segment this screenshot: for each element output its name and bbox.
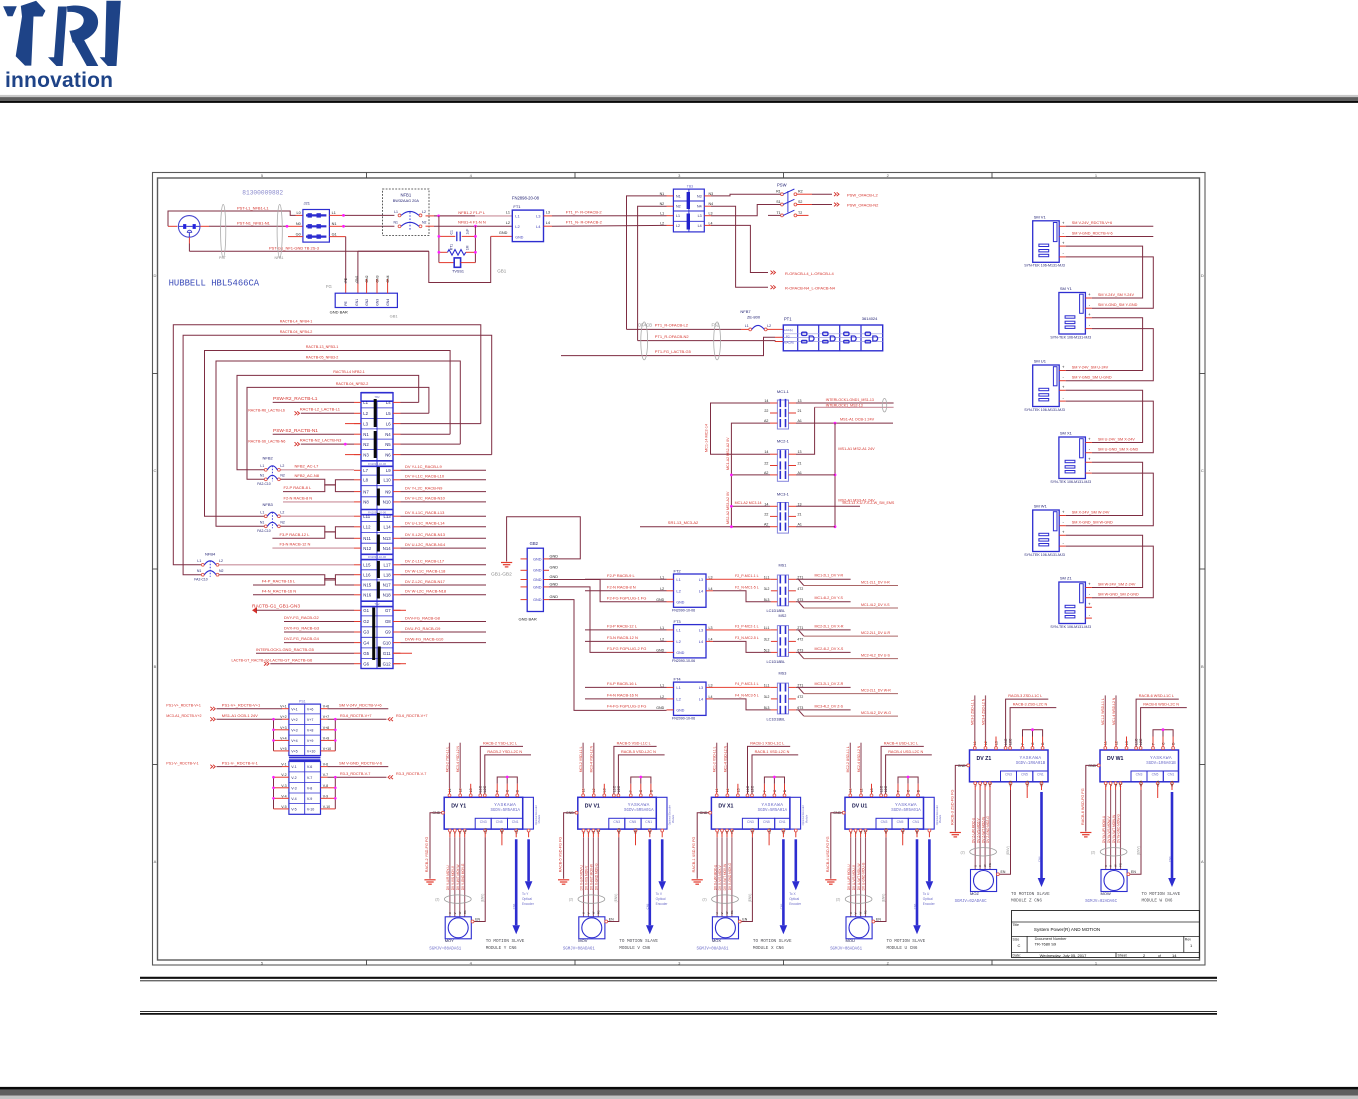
svg-text:MC2-4 USD-L2 N: MC2-4 USD-L2 N xyxy=(857,745,861,772)
net MC3-2L1_DV Z-R xyxy=(796,686,851,688)
wire DV U1 CN8 to EN xyxy=(885,832,887,837)
net SM V-24V_RDCTB-V+6 xyxy=(1066,225,1154,227)
svg-text:L13: L13 xyxy=(384,514,392,519)
DV U1 L3 stub xyxy=(871,784,873,794)
svg-text:MODULE X CN6: MODULE X CN6 xyxy=(753,946,784,951)
svg-text:GND: GND xyxy=(676,601,684,605)
svg-text:TB2: TB2 xyxy=(374,395,380,399)
svg-text:RACB-3 ZSD-FG FG: RACB-3 ZSD-FG FG xyxy=(950,790,954,825)
svg-text:GN4: GN4 xyxy=(386,299,390,306)
svg-text:U: U xyxy=(849,912,853,914)
wire MC2-A2 MC3-A2 0V xyxy=(731,475,770,527)
svg-text:L3: L3 xyxy=(698,214,702,218)
DV X1 GND pin xyxy=(709,811,712,814)
svg-text:SYN-TEK 106-M131-MJ3: SYN-TEK 106-M131-MJ3 xyxy=(1050,625,1091,629)
svg-text:Encoder: Encoder xyxy=(656,902,669,906)
wire F4-N RACB-16 N xyxy=(585,698,667,700)
svg-text:CN6: CN6 xyxy=(1037,856,1041,862)
svg-text:SM Y-24V_SM U-24V: SM Y-24V_SM U-24V xyxy=(1072,365,1109,369)
svg-text:DV Z-L2C_RACB-N17: DV Z-L2C_RACB-N17 xyxy=(405,579,446,584)
svg-text:1L1: 1L1 xyxy=(764,575,770,579)
svg-text:L1: L1 xyxy=(660,626,664,630)
svg-text:L14: L14 xyxy=(384,525,392,530)
DV X1 L3 stub xyxy=(737,784,739,794)
svg-text:V-10: V-10 xyxy=(323,805,330,809)
svg-text:Size: Size xyxy=(1013,937,1020,941)
svg-text:MC1-2L1_DV Y-R: MC1-2L1_DV Y-R xyxy=(815,574,844,578)
net SM V-24V_RDCTB-V+6 xyxy=(327,708,388,710)
svg-text:L10: L10 xyxy=(384,478,392,483)
svg-text:GN4: GN4 xyxy=(386,275,390,282)
svg-text:CN1: CN1 xyxy=(512,820,519,824)
svg-text:PSW-S2_RACTB-N1: PSW-S2_RACTB-N1 xyxy=(273,428,318,434)
wire F3_P-MC2-1 L xyxy=(713,629,771,631)
svg-text:N1: N1 xyxy=(363,432,369,437)
svg-text:L3: L3 xyxy=(536,214,541,219)
svg-text:FG: FG xyxy=(730,910,734,914)
svg-text:SGDV=5R5A01A: SGDV=5R5A01A xyxy=(624,809,654,813)
wire loop RACTB-05_NFB3-2 xyxy=(401,443,461,445)
servo drive DV X1 YASKAWA SGDV=5R5A01A xyxy=(711,797,790,829)
svg-text:MOZ: MOZ xyxy=(970,891,979,896)
wire MC2-13 riser xyxy=(796,407,815,454)
wire MC3-2 YSD-L1 L xyxy=(449,788,451,794)
wire F3-N RACB-12 N xyxy=(272,547,354,549)
DV Z1 GND pin xyxy=(967,764,970,767)
breaker NFB1 BW32AAG 20A xyxy=(383,189,430,236)
svg-text:GND: GND xyxy=(533,557,542,561)
svg-text:L1: L1 xyxy=(506,211,510,215)
svg-text:GND: GND xyxy=(499,231,508,235)
svg-text:NFB2_AC-N8: NFB2_AC-N8 xyxy=(295,473,320,478)
svg-text:G8: G8 xyxy=(385,619,391,624)
svg-text:SM U-24V_SM X-24V: SM U-24V_SM X-24V xyxy=(1098,437,1135,441)
wire MC3-4 ZSD-L2 N xyxy=(985,741,987,747)
svg-text:V-8: V-8 xyxy=(323,784,328,788)
svg-text:YASKAWA: YASKAWA xyxy=(494,802,516,808)
DV W1 CN boxes xyxy=(1131,771,1147,782)
svg-text:FN2090-10-06: FN2090-10-06 xyxy=(672,609,695,613)
svg-text:RACTB-04_NFB4-2: RACTB-04_NFB4-2 xyxy=(280,330,313,334)
wire GB1 PE drop xyxy=(345,251,347,284)
svg-text:13: 13 xyxy=(798,450,802,454)
svg-text:CN5: CN5 xyxy=(496,820,503,824)
svg-text:V+8: V+8 xyxy=(307,728,314,732)
wire NFB1-4 F1-N N xyxy=(426,225,435,227)
net SM V-GND_RDCTB-V-6 xyxy=(327,766,388,768)
svg-text:SM W-GND_SM Z-GND: SM W-GND_SM Z-GND xyxy=(1098,593,1139,597)
svg-text:DVX-FG_RACB-G3: DVX-FG_RACB-G3 xyxy=(284,626,320,631)
svg-text:A2: A2 xyxy=(764,419,768,423)
svg-text:B: B xyxy=(1201,664,1204,669)
servo drive DV W1 YASKAWA SGDV=1R6A01B xyxy=(1100,750,1179,782)
svg-text:MC1-2 WSD-L1 L: MC1-2 WSD-L1 L xyxy=(1101,698,1105,725)
svg-text:MS1-A1 OCB-1 24V: MS1-A1 OCB-1 24V xyxy=(222,713,258,718)
svg-text:SM V-24V_SM Y-24V: SM V-24V_SM Y-24V xyxy=(1098,293,1135,297)
cable shield OFACB xyxy=(641,322,648,360)
svg-text:DV Y-W/T MOY-W: DV Y-W/T MOY-W xyxy=(456,864,460,890)
DV Z1 L3 stub xyxy=(995,737,997,747)
svg-text:N1: N1 xyxy=(260,521,265,525)
svg-text:PSW_OFACB-N2: PSW_OFACB-N2 xyxy=(847,203,879,208)
svg-text:V-8: V-8 xyxy=(307,786,312,790)
wire RACTB-L3 stub xyxy=(345,423,361,425)
DV W1 L3 stub xyxy=(1126,737,1128,747)
svg-text:GN3: GN3 xyxy=(375,275,379,282)
net DV Z-L1C_RACB-L17 xyxy=(401,564,487,566)
svg-text:FA2-C10: FA2-C10 xyxy=(257,529,270,533)
svg-text:FG: FG xyxy=(988,863,992,867)
svg-text:A: A xyxy=(1201,859,1204,864)
wire MC1-4 XSD-L2 N xyxy=(726,788,728,794)
svg-text:L4: L4 xyxy=(709,637,713,641)
svg-text:(ENV): (ENV) xyxy=(481,894,485,903)
net RACB ZSD-L1C L xyxy=(1006,699,1049,747)
wire DV Y1 CN6 stub xyxy=(501,832,503,845)
svg-text:SGMJV=08ADA61: SGMJV=08ADA61 xyxy=(697,947,729,951)
DV U1 motor phase wires xyxy=(850,832,852,837)
net RACB XSD-L1C L xyxy=(748,746,791,794)
svg-text:G12: G12 xyxy=(383,661,392,666)
svg-text:F3-N RACB-12 N: F3-N RACB-12 N xyxy=(280,542,311,547)
svg-text:L3: L3 xyxy=(699,685,704,690)
RACTB separator 1 xyxy=(361,460,393,462)
svg-text:U: U xyxy=(1104,865,1108,867)
wire NFB4 out L15 xyxy=(219,564,354,566)
svg-text:GND: GND xyxy=(656,706,664,710)
svg-text:LC1D18BL: LC1D18BL xyxy=(767,717,786,721)
svg-text:4T2: 4T2 xyxy=(797,695,803,699)
svg-text:NFB7: NFB7 xyxy=(740,309,751,314)
svg-text:V-2: V-2 xyxy=(291,776,296,780)
svg-text:GND: GND xyxy=(533,578,542,582)
svg-text:G7: G7 xyxy=(385,608,391,613)
wire loop RACTB-L4_NFB2-1 xyxy=(401,401,419,403)
svg-text:2T1: 2T1 xyxy=(797,683,803,687)
wire RACB WSD-FG FG xyxy=(1086,765,1098,831)
svg-text:SGMJV=08ADA61: SGMJV=08ADA61 xyxy=(563,947,595,951)
wire DV W1 CN8 to EN xyxy=(1140,785,1142,790)
svg-text:TR-7680 S9: TR-7680 S9 xyxy=(1035,942,1057,947)
svg-text:CN1: CN1 xyxy=(779,820,786,824)
svg-text:RACTB-L2_LACTB-L1: RACTB-L2_LACTB-L1 xyxy=(300,407,341,412)
svg-text:RACB-4 USD-L2C N: RACB-4 USD-L2C N xyxy=(888,750,923,754)
svg-text:V+10: V+10 xyxy=(323,747,332,751)
varistor TVSS1 xyxy=(439,262,454,264)
svg-text:FG: FG xyxy=(326,284,332,289)
svg-text:V: V xyxy=(587,912,591,914)
wire loop RACTB-N6_NFB4-2 xyxy=(401,454,492,456)
svg-text:DV V-V/S MOV-V: DV V-V/S MOV-V xyxy=(585,865,589,890)
wire PSW-T2 stub xyxy=(797,214,809,216)
svg-text:V-10: V-10 xyxy=(307,808,314,812)
svg-text:EN: EN xyxy=(1131,870,1136,874)
svg-text:V+3: V+3 xyxy=(280,726,287,730)
arrow DV U1 encoder xyxy=(928,832,930,837)
wire F2-N RACB-8 N xyxy=(585,590,667,592)
svg-text:L/AC(L): L/AC(L) xyxy=(784,328,793,332)
svg-text:GN3: GN3 xyxy=(375,299,379,306)
contactor MC1-1 pins xyxy=(770,402,777,404)
svg-text:(ENV): (ENV) xyxy=(1006,846,1010,855)
svg-text:DV Y-L1C_RACB-L9: DV Y-L1C_RACB-L9 xyxy=(405,464,442,469)
wire F4-N_RACTB-16 N xyxy=(253,594,354,596)
wire F2_N-MC1-5 L xyxy=(713,591,771,602)
svg-text:V-5: V-5 xyxy=(291,808,296,812)
svg-text:3L2: 3L2 xyxy=(764,637,770,641)
svg-text:V-1: V-1 xyxy=(281,763,286,767)
svg-text:SGDV=5R5A01A: SGDV=5R5A01A xyxy=(758,809,788,813)
svg-text:N2: N2 xyxy=(422,221,427,225)
svg-text:SM Y1: SM Y1 xyxy=(1060,286,1073,291)
motor MOX SGMJV=08ADA61 xyxy=(712,917,738,939)
arrow DV W1 CN1 to motion slave xyxy=(1171,785,1173,790)
svg-text:L2: L2 xyxy=(363,411,368,416)
svg-text:MS1: MS1 xyxy=(779,564,787,568)
svg-text:F2-FG FGPLUG-1 FG: F2-FG FGPLUG-1 FG xyxy=(607,595,646,600)
svg-text:(ENV): (ENV) xyxy=(881,894,885,903)
svg-text:FT4: FT4 xyxy=(674,677,682,682)
svg-text:G2: G2 xyxy=(363,619,369,624)
svg-text:NFB4: NFB4 xyxy=(205,552,216,557)
svg-text:L1: L1 xyxy=(394,210,398,214)
svg-text:V+7: V+7 xyxy=(307,718,314,722)
svg-text:MC3-4 VSD-L2 N: MC3-4 VSD-L2 N xyxy=(590,745,594,772)
DV W1 P-C-D jumper xyxy=(1152,737,1154,747)
svg-text:L0: L0 xyxy=(296,211,300,215)
svg-text:NFB2_AC-L7: NFB2_AC-L7 xyxy=(295,463,320,468)
svg-text:V-4: V-4 xyxy=(291,797,296,801)
wire DV U1 CN6 stub xyxy=(902,832,904,845)
DV Z1 CN boxes xyxy=(1001,771,1017,782)
wire GND to FT2 xyxy=(549,580,667,602)
wire 24V A1 bus xyxy=(834,423,836,527)
wire SM Y1 chain + xyxy=(1066,318,1143,371)
svg-text:RACB-1 XSD-FG FG: RACB-1 XSD-FG FG xyxy=(692,837,696,873)
svg-text:N17: N17 xyxy=(383,583,391,588)
footer double rules xyxy=(140,977,1217,979)
DV U1 top pins xyxy=(849,794,852,797)
svg-text:LACTB-GT_RACTB-G6: LACTB-GT_RACTB-G6 xyxy=(270,657,313,662)
svg-text:MC2-4L2_DV X-S: MC2-4L2_DV X-S xyxy=(815,647,844,651)
svg-text:1L1: 1L1 xyxy=(764,683,770,687)
svg-text:RACB-3 ZSD-L1C L: RACB-3 ZSD-L1C L xyxy=(1008,694,1042,698)
svg-text:Module: Module xyxy=(804,814,808,823)
svg-text:5L3: 5L3 xyxy=(764,648,770,652)
svg-text:6T3: 6T3 xyxy=(797,648,803,652)
wire J21 G0 stub xyxy=(288,236,303,238)
svg-text:L2: L2 xyxy=(280,511,284,515)
title block xyxy=(1012,911,1200,958)
wire RACB YSD-FG FG xyxy=(430,813,442,879)
svg-text:INTERLOCK1-GND_RACTB-G5: INTERLOCK1-GND_RACTB-G5 xyxy=(256,647,315,652)
svg-text:DV W1: DV W1 xyxy=(1107,756,1124,762)
svg-text:L2: L2 xyxy=(660,587,664,591)
svg-text:TO MOTION SLAVE: TO MOTION SLAVE xyxy=(1011,892,1050,897)
wire PT1-FG_LACTB-G5 xyxy=(561,337,775,355)
svg-text:N8: N8 xyxy=(363,500,369,505)
svg-text:F4_P-MC3-1 L: F4_P-MC3-1 L xyxy=(735,682,759,686)
wire NFB3 out L12 xyxy=(281,526,355,532)
wire MC1-A2 MC2-A2 0V xyxy=(731,423,770,475)
svg-text:V+8: V+8 xyxy=(323,726,330,730)
svg-text:DV W-GND MOW-G: DV W-GND MOW-G xyxy=(1117,814,1121,843)
svg-text:L2: L2 xyxy=(660,695,664,699)
svg-text:L1: L1 xyxy=(676,577,681,582)
svg-text:DV Z1: DV Z1 xyxy=(977,756,992,762)
net PSW_OFACB-N2 xyxy=(797,204,812,206)
svg-text:G3: G3 xyxy=(363,630,369,635)
svg-text:F2-N RACB-8 N: F2-N RACB-8 N xyxy=(607,584,636,589)
wire GND to FT3 xyxy=(549,587,667,653)
ground symbol GB1-GB2 xyxy=(501,562,512,564)
svg-text:SM V-24V_RDCTB-V+6: SM V-24V_RDCTB-V+6 xyxy=(1072,221,1112,225)
capacitor C1 1uF xyxy=(439,235,455,237)
svg-text:MOX: MOX xyxy=(712,938,721,943)
svg-text:V-7: V-7 xyxy=(307,776,312,780)
svg-text:V+10: V+10 xyxy=(307,750,316,754)
net RACB USD-L2C N xyxy=(886,755,932,794)
svg-text:TO MOTION SLAVE: TO MOTION SLAVE xyxy=(753,939,792,944)
svg-text:DV Y-GND MOY-G: DV Y-GND MOY-G xyxy=(461,863,465,890)
svg-text:DV X-W/T MOX-W: DV X-W/T MOX-W xyxy=(723,864,727,891)
svg-text:RACB-3 ZSD-L2C N: RACB-3 ZSD-L2C N xyxy=(1013,703,1048,707)
sheet border frame xyxy=(153,173,1206,966)
svg-text:J21: J21 xyxy=(304,201,311,206)
wire DV W1 CN6 stub xyxy=(1157,785,1159,798)
svg-text:F4-P_RACTB-16 L: F4-P_RACTB-16 L xyxy=(262,579,296,584)
svg-text:L3: L3 xyxy=(546,211,550,215)
wire PST-L1_NFB1-L1 xyxy=(168,225,177,227)
servo drive DV Z1 YASKAWA SGDV=1R6A01B xyxy=(970,750,1049,782)
wire NFB3 out L11 xyxy=(281,515,355,517)
svg-text:Optical: Optical xyxy=(923,897,933,901)
svg-text:L1: L1 xyxy=(660,212,664,216)
wire NFB1-2 F1-P L xyxy=(426,215,435,217)
svg-text:MC3-2 VSD-L1 L: MC3-2 VSD-L1 L xyxy=(579,746,583,772)
motor MOZ SGMJV=02ADA6C xyxy=(971,870,997,892)
svg-text:DV W-L2C_RACB-N18: DV W-L2C_RACB-N18 xyxy=(405,589,447,594)
svg-text:SM Z1: SM Z1 xyxy=(1060,576,1073,581)
svg-text:MC3-1: MC3-1 xyxy=(777,492,790,497)
svg-text:SGDV=1R6A01B: SGDV=1R6A01B xyxy=(1016,762,1046,766)
svg-text:FN2090-10-06: FN2090-10-06 xyxy=(368,555,386,559)
svg-text:DV Z-W/T MOZ-W: DV Z-W/T MOZ-W xyxy=(981,817,985,843)
svg-text:FN2090-10-06: FN2090-10-06 xyxy=(672,717,695,721)
wire SM V1 chain + xyxy=(1066,246,1143,298)
svg-text:14: 14 xyxy=(764,450,768,454)
svg-text:D: D xyxy=(154,273,157,278)
RACTB separator 3 xyxy=(361,553,393,555)
svg-text:DV Y-L2C_RACB-N9: DV Y-L2C_RACB-N9 xyxy=(405,485,443,490)
svg-text:RACB-6 WSD-L1C L: RACB-6 WSD-L1C L xyxy=(1139,694,1174,698)
svg-text:RACB-2 YSD-L1C L: RACB-2 YSD-L1C L xyxy=(483,741,517,745)
svg-text:R1: R1 xyxy=(776,190,781,194)
net DV U-L1C_RACB-L14 xyxy=(401,526,487,528)
svg-text:GB1: GB1 xyxy=(390,314,399,319)
svg-text:(2): (2) xyxy=(961,850,965,854)
svg-text:SYN-TEK 106-M131-MJ3: SYN-TEK 106-M131-MJ3 xyxy=(1024,264,1065,268)
svg-text:MS3: MS3 xyxy=(779,672,787,676)
svg-text:DV U-U/R MOU-U: DV U-U/R MOU-U xyxy=(847,864,851,891)
DV W1 GND pin xyxy=(1097,764,1100,767)
wire MC3-4 YSD-L2 N xyxy=(459,788,461,794)
svg-text:R3-6_RDCTB-V+7: R3-6_RDCTB-V+7 xyxy=(396,714,428,718)
power plug P1 HUBBELL xyxy=(178,216,200,238)
svg-text:PST-G1_NF1-GND TB 2S-3: PST-G1_NF1-GND TB 2S-3 xyxy=(269,245,320,250)
svg-text:GND BAR: GND BAR xyxy=(330,310,348,315)
DV Y1 CN boxes xyxy=(475,818,491,829)
svg-text:N1: N1 xyxy=(676,194,681,198)
svg-text:Sheet: Sheet xyxy=(1118,954,1127,958)
svg-text:FG: FG xyxy=(864,910,868,914)
svg-text:V+1: V+1 xyxy=(280,705,287,709)
TRI innovation logo xyxy=(3,1,121,92)
svg-text:LC1D18BL: LC1D18BL xyxy=(767,609,786,613)
svg-text:GND: GND xyxy=(550,554,559,558)
svg-text:(2): (2) xyxy=(569,898,573,902)
net DVU-FG_RACB-G9 xyxy=(401,631,487,633)
wire loop RACTB-13_NFB3-1 xyxy=(401,433,451,435)
DV W1 bottom pins xyxy=(1104,782,1107,785)
svg-text:N2: N2 xyxy=(280,521,285,525)
svg-text:GND: GND xyxy=(550,582,559,586)
motor MOW SGMJV=02ADA6C xyxy=(1101,870,1127,892)
svg-text:FS2: FS2 xyxy=(712,323,720,328)
svg-text:MC2-4L2_DV U-S: MC2-4L2_DV U-S xyxy=(861,654,891,658)
svg-text:81300009882: 81300009882 xyxy=(242,189,283,196)
svg-text:DV V-U/R MOV-U: DV V-U/R MOV-U xyxy=(580,864,584,890)
svg-text:EN: EN xyxy=(876,917,881,921)
svg-text:MC1-4L2_DV Y-S: MC1-4L2_DV Y-S xyxy=(815,596,844,600)
svg-text:L4: L4 xyxy=(698,224,702,228)
svg-text:L4: L4 xyxy=(699,639,704,644)
net DVW-FG_RACB-G10 xyxy=(401,642,487,644)
svg-text:DV V-GND MOV-G: DV V-GND MOV-G xyxy=(595,863,599,890)
svg-text:N2: N2 xyxy=(363,442,369,447)
svg-text:CN3: CN3 xyxy=(881,820,888,824)
svg-text:PT1_R-OFACB-L2: PT1_R-OFACB-L2 xyxy=(655,323,689,328)
DV Y1 GND pin xyxy=(442,811,445,814)
svg-text:RACTB-N2_LACTB-N3: RACTB-N2_LACTB-N3 xyxy=(300,437,342,442)
svg-text:L4: L4 xyxy=(709,695,713,699)
wire V-2-5 tie xyxy=(273,777,275,809)
DV Z1 motor phase wires xyxy=(974,785,976,790)
svg-text:V: V xyxy=(453,912,457,914)
RACTB separator 2 xyxy=(361,509,393,511)
svg-text:L15: L15 xyxy=(363,563,371,568)
net DV W-L2C_RACB-N18 xyxy=(401,594,487,596)
svg-text:GND: GND xyxy=(550,575,559,579)
wire MC2-A1 to bus xyxy=(796,474,835,476)
svg-text:NFB1: NFB1 xyxy=(275,256,284,260)
svg-text:L4: L4 xyxy=(709,587,713,591)
svg-text:CN1: CN1 xyxy=(1037,773,1044,777)
svg-text:L2: L2 xyxy=(422,210,426,214)
svg-text:2T1: 2T1 xyxy=(797,626,803,630)
svg-text:L1: L1 xyxy=(515,214,520,219)
wire RACB USD-FG FG xyxy=(831,813,843,879)
svg-text:TO MOTION SLAVE: TO MOTION SLAVE xyxy=(486,939,525,944)
wire SM U1 chain + xyxy=(1066,390,1143,442)
svg-text:V-3: V-3 xyxy=(281,784,286,788)
svg-text:DV Z-GND MOZ-G: DV Z-GND MOZ-G xyxy=(986,816,990,843)
svg-text:RACB-6 WSD-L2C N: RACB-6 WSD-L2C N xyxy=(1143,703,1179,707)
svg-text:FG: FG xyxy=(1119,863,1123,867)
svg-text:RACB-2 YSD-FG FG: RACB-2 YSD-FG FG xyxy=(425,837,429,873)
svg-text:GND: GND xyxy=(533,585,542,589)
net MC2-4L2_DV X-S xyxy=(796,651,851,653)
